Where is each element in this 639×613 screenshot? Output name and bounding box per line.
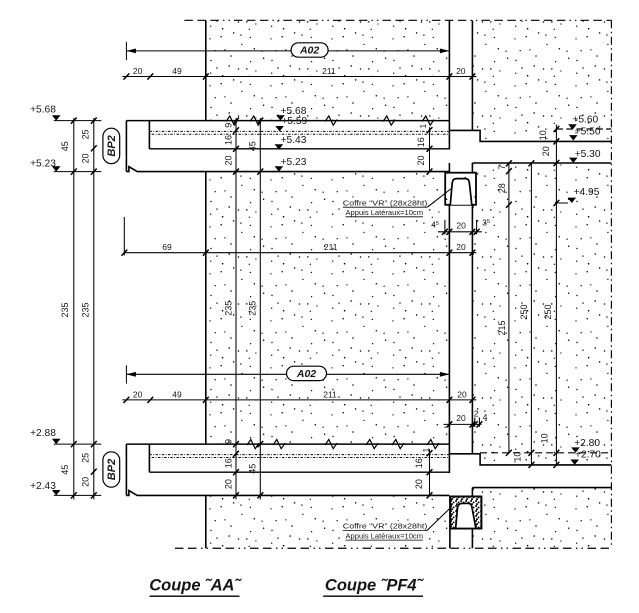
elevation marker +2.80 right (571, 447, 580, 452)
svg-text:20: 20 (456, 413, 466, 423)
svg-text:Coffre “VR” (28x28ht): Coffre “VR” (28x28ht) (343, 198, 428, 207)
svg-text:10: 10 (512, 452, 522, 462)
A02 label oval (291, 43, 328, 57)
svg-text:20: 20 (80, 153, 90, 163)
svg-text:235: 235 (248, 301, 258, 316)
svg-text:BP2: BP2 (106, 135, 118, 156)
dashed level line +5.60 (556, 128, 611, 130)
svg-text:+2.43: +2.43 (30, 481, 56, 492)
BP2 label oval (103, 128, 120, 163)
svg-text:1: 1 (419, 123, 428, 128)
svg-text:Coupe ˜AA˜: Coupe ˜AA˜ (149, 577, 242, 595)
svg-text:250: 250 (543, 304, 553, 319)
svg-text:+5.23: +5.23 (281, 157, 307, 168)
coffre VR box upper (445, 173, 476, 205)
svg-text:2: 2 (474, 408, 479, 418)
svg-text:10: 10 (538, 130, 548, 140)
svg-text:+5.50: +5.50 (575, 127, 601, 138)
svg-text:10: 10 (540, 433, 550, 443)
svg-text:9: 9 (223, 439, 233, 444)
svg-text:20: 20 (414, 479, 424, 489)
dimension vertical x=508.9 7/28/215 (508, 163, 510, 453)
concrete hatch: top-right mass (472, 20, 611, 141)
svg-text:69: 69 (162, 242, 172, 252)
svg-text:9: 9 (223, 123, 233, 128)
concrete hatch: wall between beams (206, 172, 450, 445)
roller shutter shape lower (456, 503, 476, 528)
svg-text:45: 45 (248, 141, 258, 151)
svg-text:211: 211 (323, 389, 337, 399)
svg-text:20: 20 (223, 155, 233, 165)
leader to coffre (427, 507, 452, 531)
svg-text:250: 250 (519, 304, 529, 319)
svg-text:7: 7 (497, 165, 507, 170)
break marks lower beam (247, 440, 259, 449)
elevation marker +2.43 left (54, 494, 102, 496)
svg-text:1: 1 (422, 447, 431, 452)
svg-text:16: 16 (223, 458, 233, 468)
BP2 label oval (103, 452, 120, 487)
svg-text:20: 20 (541, 146, 551, 156)
dashed boundary bottom (175, 547, 611, 549)
lower head ledge step (449, 454, 611, 465)
svg-text:20: 20 (133, 389, 143, 399)
lintel soffit +5.30 (472, 162, 611, 164)
dimension row 20/49/211/20 top (122, 76, 476, 78)
svg-text:20: 20 (133, 66, 143, 76)
svg-text:211: 211 (324, 242, 338, 252)
svg-text:235: 235 (223, 301, 233, 316)
elevation marker +5.60 right (568, 124, 577, 129)
svg-text:+5.43: +5.43 (281, 135, 307, 146)
svg-text:211: 211 (322, 66, 336, 76)
elevation marker +5.30 right (569, 158, 578, 163)
window bay verticals upper (448, 20, 450, 149)
break marks upper beam (226, 116, 238, 125)
svg-text:235: 235 (80, 302, 90, 317)
svg-text:+5.68: +5.68 (30, 104, 56, 115)
extension line for A02 (125, 42, 127, 60)
svg-text:16: 16 (414, 458, 424, 468)
svg-text:+5.60: +5.60 (572, 115, 598, 126)
dimension vertical x=556.4 10/20/250 (555, 125, 557, 465)
head ledge +5.50 step (449, 130, 611, 141)
svg-text:+4.95: +4.95 (574, 187, 600, 198)
svg-text:4: 4 (483, 412, 488, 422)
dimension vertical x=236 chain 9/16/20 + 235 (235, 118, 237, 499)
svg-text:Appuis Latéraux=10cm: Appuis Latéraux=10cm (346, 531, 424, 540)
elevation marker +5.68 left (54, 120, 102, 122)
elevation marker +4.95 (556, 202, 568, 204)
svg-text:49: 49 (172, 389, 182, 399)
svg-text:A02: A02 (299, 45, 319, 57)
elevation marker +5.23 middle (275, 166, 284, 171)
svg-text:+2.70: +2.70 (575, 450, 601, 461)
elevation marker +5.23 left (54, 171, 102, 173)
wall left edge segments (205, 20, 207, 120)
leader to coffre (427, 188, 452, 207)
svg-text:25: 25 (80, 453, 90, 463)
svg-text:+5.30: +5.30 (575, 149, 601, 160)
svg-text:20: 20 (80, 477, 90, 487)
svg-text:Coupe ˜PF4˜: Coupe ˜PF4˜ (325, 577, 425, 595)
dimension row 69/211/20 (124, 252, 476, 254)
svg-text:+5.23: +5.23 (30, 159, 56, 170)
left dimension verticals 45/25/20 + 235 (73, 118, 75, 499)
A02 leader line with arrows (126, 50, 449, 52)
svg-text:215: 215 (497, 320, 507, 335)
svg-text:20: 20 (457, 389, 467, 399)
concrete hatch: wall below lower beam (206, 495, 450, 548)
insulation dotted lines (149, 454, 449, 456)
dimension row 20/2/4 above lower coffre (444, 423, 482, 425)
dimension vertical x=429.5 upper 1/16/20 (429, 127, 431, 172)
dimension vertical x=429.5 lower 1/16/20 (429, 449, 431, 497)
svg-text:+5.59: +5.59 (281, 116, 307, 127)
dimension row 20/49/211/20 lower (122, 399, 476, 401)
elevation marker +2.88 left (54, 443, 102, 445)
lower mass top edge (472, 487, 611, 489)
coffre VR box lower (hatched) (450, 497, 481, 529)
svg-text:+2.88: +2.88 (30, 428, 56, 439)
dimension vertical x=531.4 250 (530, 163, 532, 465)
svg-text:20: 20 (456, 221, 466, 231)
beam BP2 outline (126, 120, 449, 122)
svg-text:BP2: BP2 (106, 459, 118, 480)
bay verticals mid-span (448, 163, 450, 173)
svg-text:45: 45 (248, 464, 258, 474)
svg-text:25: 25 (80, 129, 90, 139)
dashed boundary right (axis) (610, 20, 612, 548)
dashed boundary top (184, 19, 611, 21)
concrete hatch: right mass between lintels (472, 163, 611, 465)
svg-text:A02: A02 (296, 368, 316, 380)
dimension vertical x=260.3 45 + 235 (259, 118, 261, 499)
beam BP2 outline (126, 443, 449, 445)
concrete hatch: lower-right mass (472, 488, 611, 549)
annotation Coffre VR (341, 197, 428, 220)
svg-text:16: 16 (416, 137, 426, 147)
svg-text:Appuis Latéraux=10cm: Appuis Latéraux=10cm (346, 208, 424, 217)
concrete hatch: wall above upper beam (206, 20, 450, 120)
svg-text:20: 20 (416, 155, 426, 165)
A02 leader line with arrows (126, 373, 449, 375)
svg-text:20: 20 (456, 66, 466, 76)
beam bottom with drip notch (126, 167, 449, 172)
svg-text:+2.80: +2.80 (574, 438, 600, 449)
svg-text:49: 49 (172, 66, 182, 76)
elevation marker +5.50 right (569, 135, 578, 140)
svg-text:28: 28 (497, 183, 507, 193)
svg-text:20: 20 (223, 479, 233, 489)
extension line for A02 (125, 365, 127, 383)
annotation Coffre VR (341, 521, 428, 544)
insulation dotted lines (149, 130, 449, 132)
A02 label oval (287, 366, 327, 380)
elevation marker +5.59 middle (275, 126, 284, 131)
roller shutter shape upper (450, 179, 472, 205)
elevation marker +5.43 middle (275, 144, 284, 149)
dimension row 45/20/35 under upper coffre (438, 231, 482, 233)
dashed level line +2.80 (480, 452, 611, 454)
svg-text:Coffre “VR” (28x28ht): Coffre “VR” (28x28ht) (343, 522, 428, 531)
beam bottom with drip notch (126, 491, 449, 496)
svg-text:20: 20 (456, 242, 466, 252)
svg-text:45: 45 (60, 141, 70, 151)
svg-text:16: 16 (223, 135, 233, 145)
elevation marker +5.68 middle (276, 115, 285, 120)
elevation marker +2.70 right (570, 460, 579, 465)
bay verticals below lower box (449, 529, 451, 549)
svg-text:235: 235 (60, 302, 70, 317)
svg-text:45: 45 (60, 465, 70, 475)
